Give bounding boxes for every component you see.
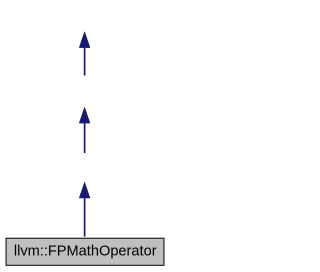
wire: edge 3 shaft (bottom inheritance arrow) [84,197,86,237]
inheritance graph for llvm::FPMathOperator [0,0,171,272]
wire: edge 2 shaft (middle inheritance arrow) [84,122,86,153]
svg-text:llvm::FPMathOperator: llvm::FPMathOperator [14,244,157,260]
wire: edge 1 shaft (topmost inheritance arrow) [84,47,86,76]
arrowhead of edge 2 [79,107,90,123]
arrowhead of edge 1 [79,32,90,48]
node box: llvm::FPMathOperator [6,238,164,265]
arrowhead of edge 3 [79,182,90,198]
